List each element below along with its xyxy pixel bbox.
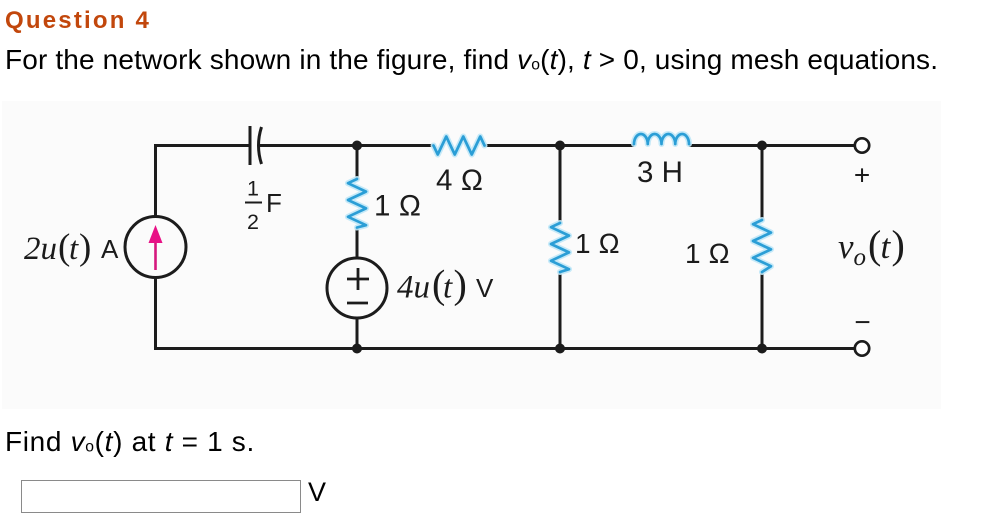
wire: node B down to resistor R2 <box>559 146 562 224</box>
wire: bottom rail node C to - terminal <box>762 347 854 350</box>
wire: node A down to resistor R1 <box>356 146 359 180</box>
answer input box <box>21 480 301 513</box>
wire: resistor R3 to bottom rail <box>761 272 764 349</box>
voltage source V1 plus-minus <box>347 268 369 303</box>
terminal + open circle <box>855 138 869 152</box>
node B top <box>555 141 565 151</box>
node C bottom <box>757 344 767 354</box>
svg-text:2u: 2u <box>24 231 57 267</box>
resistor R1 1 ohm (zigzag with glow) <box>348 179 366 228</box>
svg-text:): ) <box>454 262 467 307</box>
svg-text:): ) <box>892 222 905 267</box>
wire: node B to inductor <box>560 144 634 147</box>
capacitor C 1/2 F <box>250 126 262 165</box>
svg-text:1 Ω: 1 Ω <box>374 190 421 223</box>
node A bottom <box>352 344 362 354</box>
svg-text:V: V <box>476 273 494 303</box>
wire: resistor R2 to bottom rail <box>559 272 562 349</box>
node B bottom <box>555 344 565 354</box>
wire: node C to + terminal <box>762 144 854 147</box>
resistor R3 1 ohm (zigzag with glow) <box>753 220 771 272</box>
resistor R2 1 ohm (zigzag with glow) <box>551 223 569 272</box>
svg-text:2: 2 <box>247 210 259 234</box>
current source I1 arrow <box>149 225 163 270</box>
label 1/2 F <box>245 177 282 235</box>
wire: node A to 4-ohm resistor <box>357 144 434 147</box>
wire: voltage source V1 to bottom rail <box>356 318 359 349</box>
svg-text:(: ( <box>868 222 881 267</box>
figure background <box>2 101 941 409</box>
svg-text:4u: 4u <box>397 270 430 306</box>
svg-text:3 H: 3 H <box>637 156 683 189</box>
wire: 4-ohm resistor to node B <box>485 144 561 147</box>
node C top <box>757 141 767 151</box>
svg-text:t: t <box>443 270 453 306</box>
terminal - open circle <box>855 341 869 355</box>
current source I1 circle <box>125 217 186 278</box>
wire: inductor to node C <box>689 144 762 147</box>
inductor L 3H (coil with glow) <box>634 134 689 144</box>
wire: top-left from left rail to capacitor <box>156 146 251 217</box>
wire: capacitor to node A <box>259 144 357 147</box>
svg-text:o: o <box>854 244 867 271</box>
svg-text:+: + <box>854 160 870 191</box>
svg-text:v: v <box>838 227 854 266</box>
svg-text:A: A <box>101 234 119 264</box>
wire: resistor R1 to voltage source V1 <box>356 228 359 259</box>
svg-text:1 Ω: 1 Ω <box>575 228 620 259</box>
wire: bottom rail node B to node C <box>560 347 762 350</box>
wire: left rail below source to bottom rail <box>156 278 358 349</box>
svg-text:): ) <box>79 227 91 268</box>
svg-text:t: t <box>881 227 892 266</box>
node A top <box>352 141 362 151</box>
svg-text:F: F <box>266 188 282 218</box>
svg-text:1 Ω: 1 Ω <box>685 238 730 269</box>
svg-text:1: 1 <box>247 177 259 201</box>
wire: bottom rail node A to node B <box>357 347 560 350</box>
resistor 4 ohm (zigzag with glow) <box>434 137 485 155</box>
wire: node C down to resistor R3 <box>761 146 764 221</box>
svg-text:−: − <box>854 307 870 338</box>
svg-text:t: t <box>69 231 79 267</box>
voltage source V1 circle <box>327 258 387 318</box>
svg-text:4 Ω: 4 Ω <box>436 164 483 197</box>
junction dots <box>352 141 767 354</box>
